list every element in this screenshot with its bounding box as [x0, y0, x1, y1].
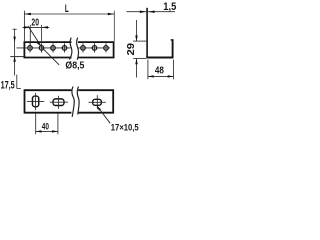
- side view channel lip: [171, 39, 174, 41]
- rail front view right portion: [78, 42, 114, 57]
- slot 1 center lines: [35, 93, 37, 110]
- dimension 40 arrows: [36, 130, 42, 132]
- hole center horizontal line right segment: [79, 47, 111, 49]
- dimension 40 extension lines: [35, 114, 37, 135]
- break line 1 top view: [70, 38, 73, 60]
- dimension 29 extension lines: [133, 40, 146, 42]
- dimension 48 line: [148, 75, 174, 77]
- leader arrow at slot: [97, 106, 101, 111]
- svg-text:40: 40: [42, 120, 49, 131]
- dimension 17,5 lower hook vertical: [16, 75, 18, 89]
- slot 2 center lines: [58, 96, 60, 109]
- dimension 1,5 arrows: [140, 10, 146, 13]
- svg-text:1,5: 1,5: [163, 1, 176, 13]
- dimension 20 extension lines: [29, 25, 31, 45]
- dimension 48 arrows: [148, 75, 154, 77]
- dimension L extension lines: [23, 11, 25, 42]
- dimension 17,5 arrows: [13, 37, 16, 43]
- dimension 29 arrows: [135, 36, 138, 42]
- channel bottom view right portion: [78, 90, 113, 113]
- side view back wall: [146, 8, 148, 57]
- slot 3 horizontal 17x10.5: [93, 99, 102, 105]
- side view channel right wall: [172, 40, 174, 58]
- dimension 48 extension lines: [147, 60, 149, 80]
- hole vertical center ticks: [30, 43, 106, 52]
- dimension 1,5 line: [127, 11, 176, 13]
- break line 1 bottom view: [72, 87, 74, 117]
- leader line for hole diameter: [28, 26, 59, 65]
- svg-text:L: L: [65, 3, 69, 15]
- leader line for slot size: [97, 106, 110, 123]
- dimension 17,5 bottom extension: [10, 56, 23, 58]
- leader arrow at hole: [36, 41, 40, 46]
- dimension 17,5 line: [14, 29, 16, 75]
- side view channel bottom: [146, 57, 173, 59]
- hole center horizontal line left segment: [17, 47, 71, 49]
- dimension L arrows: [24, 13, 31, 16]
- channel bottom view left portion: [25, 90, 72, 113]
- dimension 20 line: [23, 26, 50, 28]
- rail front view left portion: [24, 42, 71, 57]
- slot 2 horizontal 17x10.5: [53, 99, 64, 106]
- svg-text:20: 20: [31, 18, 39, 29]
- svg-text:Ø8,5: Ø8,5: [65, 61, 84, 72]
- dimension 20 arrows: [24, 26, 30, 29]
- break line 2 top view: [77, 38, 79, 60]
- break line 2 bottom view: [77, 87, 79, 115]
- dimension 17,5 lower hook horizontal: [17, 87, 21, 89]
- svg-text:17,5: 17,5: [1, 80, 15, 92]
- dimension L line: [24, 13, 114, 15]
- svg-text:29: 29: [126, 42, 137, 55]
- slot 3 center lines: [96, 95, 98, 109]
- dimension 17,5 top tick: [13, 28, 17, 30]
- svg-text:17×10,5: 17×10,5: [111, 122, 139, 132]
- dimension 40 line: [36, 130, 58, 132]
- slot 1 vertical 10.5x17: [32, 96, 38, 107]
- dimension 29 line segments: [136, 20, 138, 41]
- svg-text:48: 48: [155, 65, 164, 76]
- holes O8.5: [28, 46, 109, 51]
